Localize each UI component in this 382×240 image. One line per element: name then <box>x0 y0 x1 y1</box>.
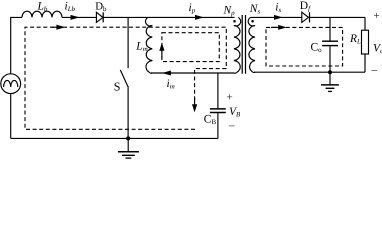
svg-text:Df: Df <box>300 0 311 12</box>
svg-text:iLb: iLb <box>65 0 76 13</box>
svg-text:RL: RL <box>349 33 361 46</box>
svg-text:Vo: Vo <box>373 43 382 56</box>
svg-text:VB: VB <box>229 106 241 119</box>
svg-text:Co: Co <box>311 42 323 55</box>
svg-text:Lb: Lb <box>37 1 48 14</box>
svg-text:–: – <box>228 120 235 132</box>
svg-text:Db: Db <box>95 1 107 13</box>
svg-text:Ns: Ns <box>249 3 261 16</box>
svg-text:Np: Np <box>223 5 236 18</box>
svg-text:+: + <box>227 91 233 103</box>
svg-text:CB: CB <box>204 114 217 127</box>
svg-text:ip: ip <box>189 2 196 15</box>
svg-text:+: + <box>374 10 380 22</box>
svg-text:S: S <box>114 80 121 94</box>
svg-text:–: – <box>371 64 378 76</box>
svg-text:is: is <box>275 2 281 15</box>
svg-text:im: im <box>167 78 175 91</box>
